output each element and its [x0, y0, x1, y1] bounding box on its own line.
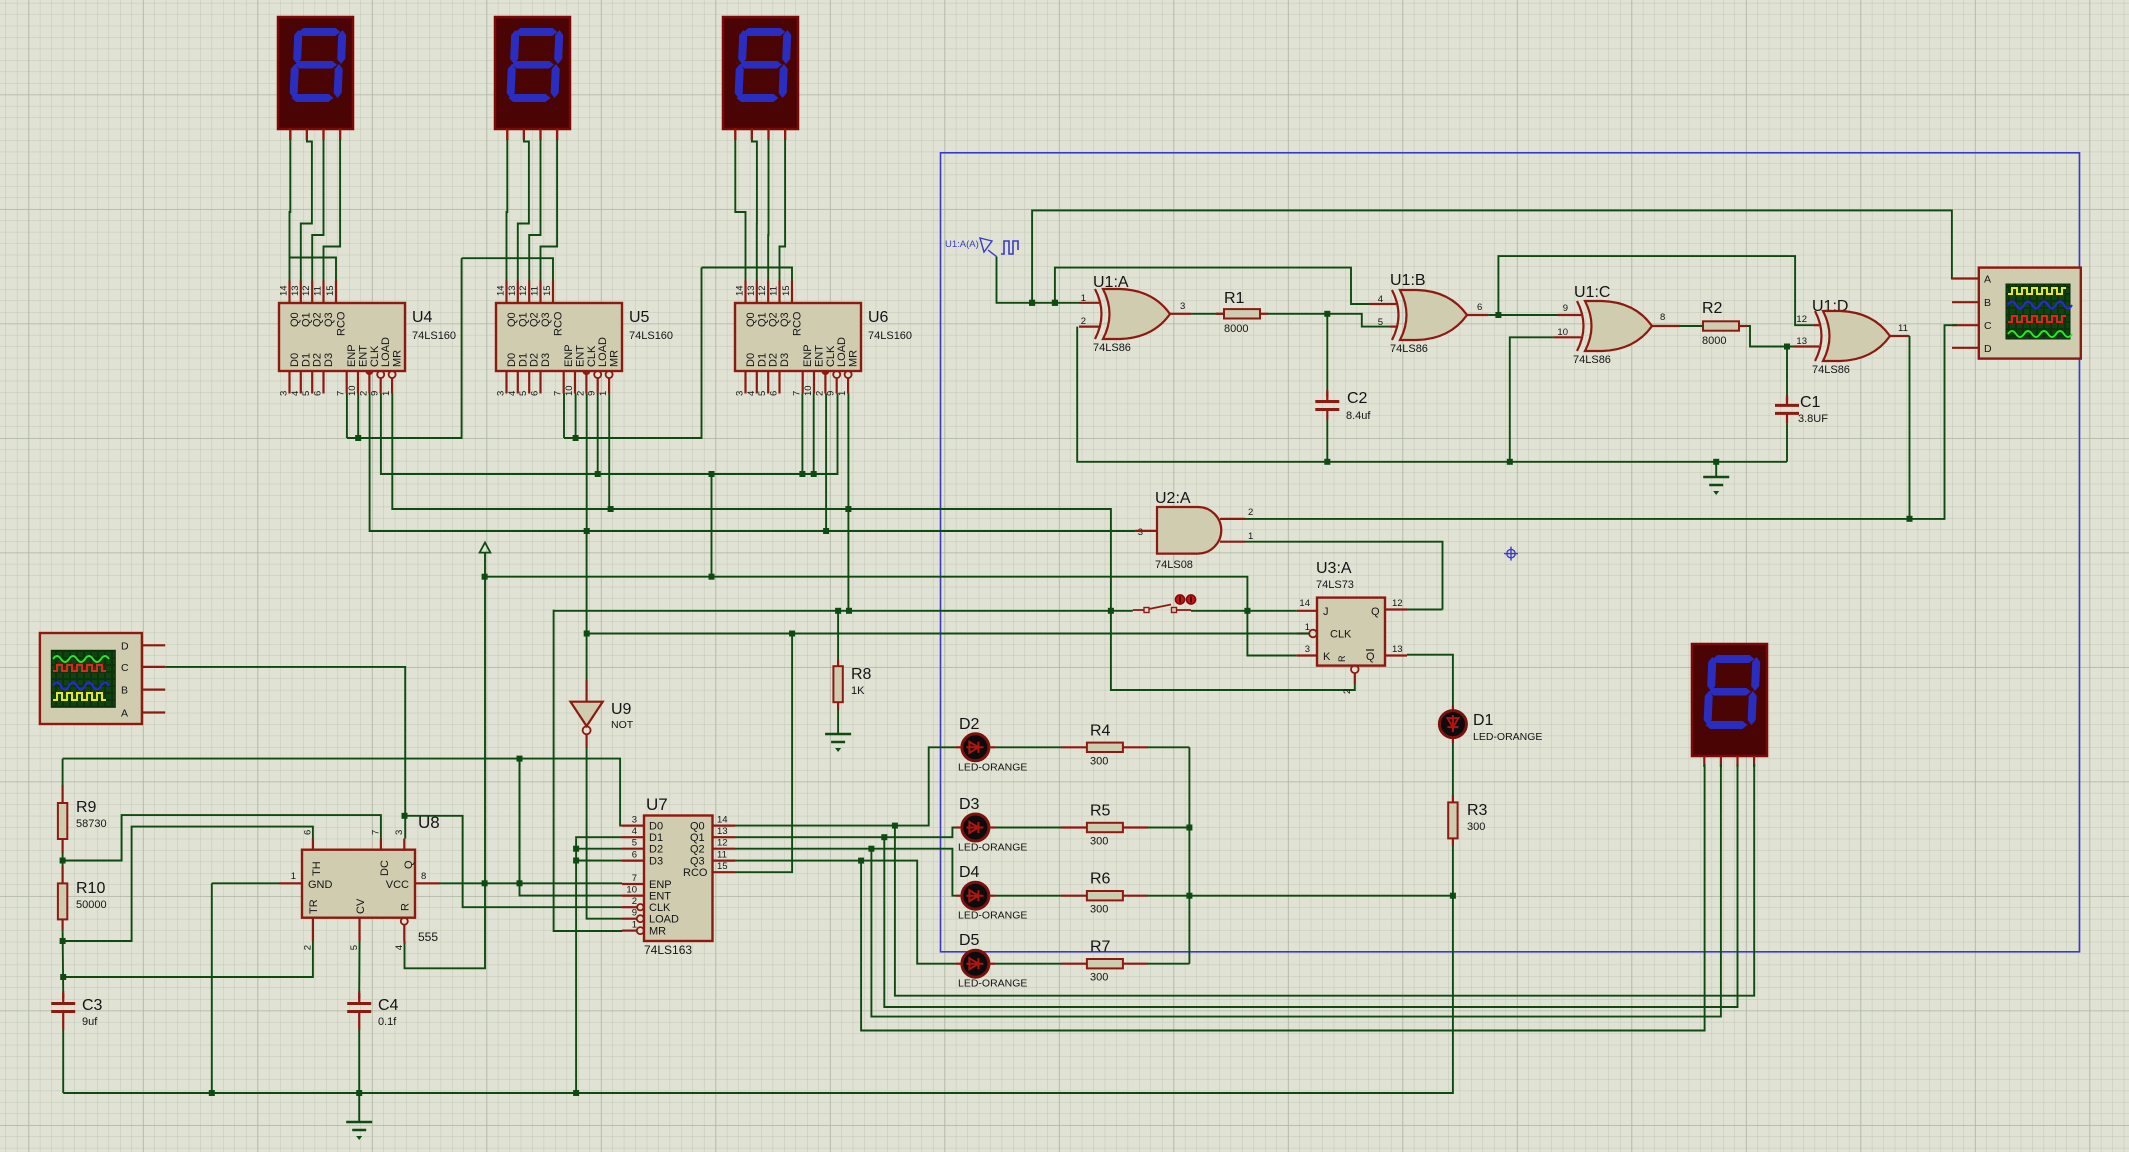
voltage probe U1:A(A) — [945, 238, 1018, 257]
svg-text:LOAD: LOAD — [380, 337, 392, 367]
svg-text:50000: 50000 — [76, 899, 107, 911]
svg-text:MR: MR — [609, 350, 621, 367]
wire GND row down to return rail — [211, 883, 213, 1093]
svg-text:LED-ORANGE: LED-ORANGE — [958, 910, 1027, 922]
svg-text:Q: Q — [1366, 651, 1375, 663]
svg-text:2: 2 — [1081, 316, 1086, 327]
svg-text:4: 4 — [394, 945, 405, 950]
svg-text:10: 10 — [564, 385, 575, 396]
wire U1:D out down to AND row — [1909, 336, 1911, 519]
svg-text:1K: 1K — [851, 685, 865, 697]
oscilloscope display right — [1952, 268, 2081, 359]
wire U7 RCO up to CLK2 row — [735, 634, 792, 873]
svg-text:300: 300 — [1090, 904, 1108, 916]
svg-text:74LS73: 74LS73 — [1316, 579, 1354, 591]
resistor R9 — [61, 786, 63, 804]
wire R10 bottom to C3 — [62, 930, 65, 991]
svg-text:13: 13 — [717, 826, 728, 837]
counter U6 74LS160 — [735, 281, 913, 397]
svg-text:8000: 8000 — [1702, 335, 1726, 347]
svg-text:MR: MR — [392, 350, 404, 367]
led D1 LED-ORANGE — [1439, 711, 1466, 738]
svg-text:300: 300 — [1090, 972, 1108, 984]
svg-text:U7: U7 — [646, 795, 668, 814]
resistor R2 — [1703, 321, 1739, 330]
svg-text:5: 5 — [349, 945, 360, 950]
svg-text:12: 12 — [1392, 598, 1403, 609]
svg-text:R10: R10 — [76, 880, 105, 897]
wire MR bus row to U3:A R pin — [392, 394, 1355, 691]
svg-text:U8: U8 — [418, 813, 440, 832]
svg-text:TR: TR — [308, 899, 320, 914]
svg-text:LOAD: LOAD — [649, 914, 679, 926]
wire VCC junction riser — [519, 759, 521, 884]
wire LOAD bus row — [381, 394, 838, 475]
svg-text:6: 6 — [769, 391, 780, 396]
svg-text:C: C — [121, 662, 129, 674]
svg-text:D3: D3 — [649, 856, 663, 868]
svg-text:58730: 58730 — [76, 818, 107, 830]
svg-text:R1: R1 — [1224, 290, 1245, 307]
wire R2 to U1:D pin13 row — [1739, 325, 1747, 327]
wire Q1 down to rail2 to display pin — [884, 764, 1737, 1007]
svg-text:MR: MR — [649, 926, 666, 938]
svg-text:15: 15 — [542, 285, 553, 296]
svg-text:LOAD: LOAD — [836, 337, 848, 367]
svg-text:DC: DC — [379, 860, 391, 876]
led D4 LED-ORANGE — [962, 882, 989, 909]
svg-text:ENP: ENP — [802, 344, 814, 367]
svg-text:12: 12 — [717, 838, 728, 849]
svg-text:D3: D3 — [323, 353, 335, 367]
svg-text:11: 11 — [769, 286, 780, 296]
svg-text:14: 14 — [717, 815, 728, 826]
svg-text:9uf: 9uf — [82, 1016, 98, 1028]
wire probe to U1:A pin 1 — [997, 257, 1080, 303]
svg-text:LOAD: LOAD — [597, 337, 609, 367]
svg-text:10: 10 — [626, 885, 637, 896]
wire U4 ENP stub — [346, 394, 348, 439]
svg-text:15: 15 — [325, 285, 336, 296]
wire U5 ENP/ENT stubs — [563, 394, 565, 439]
svg-text:13: 13 — [1796, 336, 1807, 347]
svg-text:ENT: ENT — [358, 345, 370, 367]
svg-text:2: 2 — [358, 391, 369, 396]
led D3 LED-ORANGE — [962, 814, 989, 841]
svg-text:6: 6 — [302, 830, 313, 835]
blue border box — [941, 153, 2080, 952]
ground — [1703, 477, 1729, 495]
svg-text:CLK: CLK — [586, 345, 598, 367]
wire C2 to ground rail — [1326, 420, 1328, 462]
wire U6.ENP stub — [801, 394, 803, 475]
svg-text:ENT: ENT — [575, 345, 587, 367]
svg-text:Q: Q — [1371, 606, 1380, 618]
svg-text:11: 11 — [313, 286, 324, 296]
svg-text:D2: D2 — [649, 844, 663, 856]
wire U2:A pin2 to scope C feedback — [1245, 325, 1957, 519]
svg-text:3.8UF: 3.8UF — [1798, 413, 1828, 425]
capacitor C3 — [62, 991, 64, 999]
wire U6.MR to J row — [847, 394, 849, 611]
wire TH pin row — [63, 827, 313, 941]
svg-text:D1: D1 — [517, 353, 529, 367]
svg-text:D1: D1 — [1473, 712, 1494, 729]
wire U6.ENT stub — [813, 394, 815, 475]
wire CLK bus row — [370, 394, 1136, 532]
svg-text:1: 1 — [381, 391, 392, 396]
svg-text:RCO: RCO — [553, 311, 565, 336]
pin stubs U1:A — [1079, 302, 1099, 304]
svg-text:Q0: Q0 — [289, 312, 301, 327]
resistor R10 — [61, 866, 63, 884]
svg-text:D2: D2 — [312, 353, 324, 367]
logic state indicators red circles — [1175, 595, 1184, 604]
wire U9 output to U7 LOAD — [585, 734, 587, 748]
svg-text:Q0: Q0 — [745, 312, 757, 327]
wire U2:A pin1 from U3:A Q — [1245, 542, 1443, 610]
wire R8 to ground — [837, 710, 839, 734]
svg-text:D3: D3 — [779, 353, 791, 367]
wire display to counter bundle — [734, 129, 736, 141]
wire scope-C down to 555 Q pin 3 — [165, 667, 405, 839]
wire R5 to bus — [1148, 827, 1189, 829]
svg-text:D0: D0 — [649, 821, 663, 833]
svg-text:D5: D5 — [959, 932, 980, 949]
svg-text:Q2: Q2 — [690, 844, 705, 856]
wire Q0 down to rail1 to display pin — [895, 764, 1754, 996]
wire D3 to R5 — [995, 827, 1061, 829]
svg-text:3: 3 — [1180, 301, 1185, 312]
svg-text:R4: R4 — [1090, 722, 1111, 739]
svg-text:R2: R2 — [1702, 300, 1723, 317]
svg-text:Q1: Q1 — [690, 832, 705, 844]
svg-text:4: 4 — [746, 391, 757, 396]
pin stubs U1:C — [1558, 314, 1581, 316]
svg-text:ENT: ENT — [649, 891, 671, 903]
svg-text:74LS163: 74LS163 — [644, 943, 692, 957]
wire R6 to bus — [1148, 895, 1189, 897]
svg-text:7: 7 — [553, 391, 564, 396]
svg-text:D1: D1 — [756, 353, 768, 367]
capacitor C4 from CV pin — [358, 941, 360, 991]
svg-text:3: 3 — [394, 830, 405, 835]
svg-text:U3:A: U3:A — [1316, 560, 1352, 577]
svg-text:GND: GND — [308, 879, 333, 891]
svg-text:10: 10 — [347, 385, 358, 396]
svg-text:Q: Q — [403, 860, 415, 869]
wire U3:A Qbar to D1 — [1407, 655, 1453, 706]
svg-text:11: 11 — [1898, 323, 1908, 334]
not gate U9 — [571, 702, 603, 726]
wire U3:A Q to junction — [1407, 609, 1443, 611]
svg-text:74LS86: 74LS86 — [1093, 342, 1131, 354]
resistor R7 — [1087, 959, 1123, 968]
svg-text:74LS86: 74LS86 — [1390, 343, 1428, 355]
origin marker crosshair — [1504, 547, 1518, 561]
svg-text:D: D — [1984, 343, 1992, 355]
svg-text:5: 5 — [632, 838, 637, 849]
wire D2 to R4 — [995, 746, 1061, 748]
wire power terminal down to 555 reset hook — [405, 553, 486, 969]
svg-text:RCO: RCO — [683, 867, 708, 879]
svg-text:ENP: ENP — [346, 344, 358, 367]
wire R3 down to ground return rail — [63, 846, 1453, 1093]
wire TR pin down and left to C3 top — [63, 941, 313, 977]
svg-text:74LS160: 74LS160 — [629, 330, 673, 342]
svg-text:Q3: Q3 — [323, 312, 335, 327]
wire D4 to R6 — [995, 895, 1061, 897]
svg-text:8.4uf: 8.4uf — [1346, 410, 1371, 422]
svg-text:R9: R9 — [76, 799, 97, 816]
svg-text:D2: D2 — [768, 353, 780, 367]
junction dots misc — [1029, 300, 1035, 306]
capacitor C1 — [1775, 395, 1799, 423]
svg-text:CLK: CLK — [825, 345, 837, 367]
svg-text:C2: C2 — [1347, 390, 1368, 407]
wire U6.RCO to U5 ENP/ENT — [564, 268, 702, 439]
svg-text:U9: U9 — [611, 701, 632, 718]
wire display to counter bundle — [289, 129, 291, 141]
svg-text:CV: CV — [355, 898, 367, 914]
svg-text:RCO: RCO — [336, 311, 348, 336]
wire LED bus vertical — [1188, 747, 1190, 963]
svg-text:2: 2 — [632, 896, 637, 907]
wire U9 input from CLK bus — [585, 680, 587, 702]
resistor R8 — [833, 666, 842, 702]
wire U5.MR stub — [608, 394, 610, 510]
svg-text:D2: D2 — [529, 353, 541, 367]
svg-text:LED-ORANGE: LED-ORANGE — [1473, 731, 1542, 743]
svg-text:D2: D2 — [959, 716, 980, 733]
svg-text:D1: D1 — [649, 832, 663, 844]
svg-text:R: R — [400, 903, 412, 911]
svg-text:555: 555 — [418, 930, 438, 944]
wire U1:B out junction to U1:C pin9 — [1488, 314, 1558, 316]
svg-text:C3: C3 — [82, 997, 103, 1014]
svg-text:LED-ORANGE: LED-ORANGE — [958, 842, 1027, 854]
svg-text:10: 10 — [803, 385, 814, 396]
wire Q2 to D4 row — [735, 849, 956, 896]
xor gate U1:A 74LS86 — [1093, 274, 1129, 291]
svg-text:ENP: ENP — [563, 344, 575, 367]
svg-text:2: 2 — [575, 391, 586, 396]
svg-text:NOT: NOT — [611, 719, 634, 731]
wire 555 reset pin 4 hook — [403, 941, 405, 944]
svg-text:3: 3 — [496, 391, 507, 396]
svg-text:13: 13 — [746, 285, 757, 296]
svg-text:CLK: CLK — [1330, 629, 1352, 641]
counter U5 74LS160 — [496, 281, 674, 397]
svg-text:12: 12 — [301, 285, 312, 296]
wire U5.RCO to U4 ENP/ENT — [347, 258, 462, 438]
svg-text:2: 2 — [1248, 507, 1253, 518]
svg-text:VCC: VCC — [386, 879, 409, 891]
svg-text:12: 12 — [518, 285, 529, 296]
svg-text:D: D — [121, 640, 129, 652]
wire R9 top to D0 row — [62, 759, 64, 785]
svg-text:CLK: CLK — [649, 902, 671, 914]
7-segment display top-2 — [495, 17, 570, 140]
wire R7 to bus — [1148, 963, 1189, 965]
wire U1:B out up to U1:D pin12 — [1498, 256, 1814, 325]
svg-text:11: 11 — [717, 850, 727, 861]
svg-text:12: 12 — [757, 285, 768, 296]
wire U1:C out to R2 — [1680, 325, 1703, 327]
capacitor C2 — [1315, 392, 1339, 420]
svg-text:K: K — [1323, 651, 1331, 663]
wire Q0 to D2 row — [735, 747, 956, 825]
svg-text:3: 3 — [735, 391, 746, 396]
svg-text:1: 1 — [837, 391, 848, 396]
svg-text:3: 3 — [279, 391, 290, 396]
svg-text:4: 4 — [290, 391, 301, 396]
power terminal arrow — [480, 543, 491, 553]
wire R6 row to R3 junction — [1189, 895, 1453, 897]
svg-text:5: 5 — [1378, 317, 1383, 328]
svg-text:4: 4 — [632, 826, 637, 837]
svg-text:13: 13 — [290, 285, 301, 296]
resistor R1 — [1224, 309, 1260, 318]
svg-text:74LS86: 74LS86 — [1812, 364, 1850, 376]
svg-text:Q1: Q1 — [517, 312, 529, 327]
svg-text:TH: TH — [311, 861, 323, 876]
svg-text:74LS86: 74LS86 — [1573, 354, 1611, 366]
wire C4 down to rail and ground — [358, 1030, 360, 1122]
svg-text:ENP: ENP — [649, 879, 672, 891]
svg-text:5: 5 — [301, 391, 312, 396]
svg-text:LED-ORANGE: LED-ORANGE — [958, 978, 1027, 990]
svg-text:A: A — [1984, 274, 1991, 286]
svg-text:C: C — [1984, 320, 1992, 332]
svg-text:6: 6 — [1477, 302, 1482, 313]
svg-text:U6: U6 — [868, 309, 889, 326]
svg-text:2: 2 — [1342, 689, 1353, 694]
svg-text:1: 1 — [291, 871, 296, 882]
svg-text:U1:C: U1:C — [1574, 284, 1610, 301]
svg-text:300: 300 — [1467, 821, 1485, 833]
svg-text:ENT: ENT — [814, 345, 826, 367]
resistor R4 — [1087, 743, 1123, 752]
wire ENT jog — [520, 759, 623, 896]
svg-text:74LS08: 74LS08 — [1155, 559, 1193, 571]
svg-text:9: 9 — [632, 908, 637, 919]
wire U6.CLK stub — [825, 394, 827, 532]
svg-text:U1:A(A): U1:A(A) — [945, 239, 979, 250]
ground C4 — [346, 1122, 372, 1140]
svg-text:6: 6 — [313, 391, 324, 396]
svg-text:Q3: Q3 — [690, 856, 705, 868]
svg-text:D0: D0 — [745, 353, 757, 367]
svg-text:7: 7 — [632, 873, 637, 884]
logic state switch — [1133, 605, 1191, 613]
7-segment display bottom-right — [1692, 644, 1767, 767]
wire Q3 down to rail4 to display pin — [861, 764, 1705, 1031]
wire junction down to C1 — [1786, 347, 1788, 398]
svg-text:14: 14 — [496, 285, 507, 296]
svg-text:14: 14 — [1299, 598, 1310, 609]
svg-text:R6: R6 — [1090, 871, 1111, 888]
svg-text:U2:A: U2:A — [1155, 490, 1191, 507]
svg-text:0.1f: 0.1f — [378, 1016, 397, 1028]
wire display to counter bundle — [506, 129, 508, 141]
pin stubs U1:B — [1370, 303, 1397, 305]
svg-text:9: 9 — [826, 391, 837, 396]
svg-text:CLK: CLK — [369, 345, 381, 367]
svg-text:U5: U5 — [629, 309, 650, 326]
wire U1:A pin1 to U1:B pin4 — [1055, 268, 1370, 304]
svg-text:Q1: Q1 — [756, 312, 768, 327]
pin stubs U1:D — [1814, 324, 1819, 326]
svg-text:MR: MR — [848, 350, 860, 367]
ground rail junctions — [1713, 459, 1719, 465]
svg-text:15: 15 — [781, 285, 792, 296]
svg-text:11: 11 — [530, 286, 541, 296]
J row wire with switch — [554, 610, 622, 931]
svg-text:3: 3 — [1305, 644, 1310, 655]
svg-text:Q0: Q0 — [506, 312, 518, 327]
svg-text:8: 8 — [1660, 312, 1665, 323]
svg-text:9: 9 — [587, 391, 598, 396]
wire U5.CLK stub — [586, 394, 588, 532]
svg-text:R7: R7 — [1090, 939, 1111, 956]
wire GND pin row — [212, 882, 279, 884]
svg-text:2: 2 — [302, 945, 313, 950]
svg-text:B: B — [1984, 297, 1991, 309]
resistor R6 — [1087, 891, 1123, 900]
svg-text:5: 5 — [518, 391, 529, 396]
wire DC pin row — [63, 815, 381, 860]
7-segment display top-3 — [723, 17, 798, 140]
resistor R3 — [1448, 802, 1457, 838]
wire C1 to ground rail — [1786, 423, 1788, 461]
svg-text:13: 13 — [1392, 644, 1403, 655]
wire U1:A out to R1 — [1191, 313, 1224, 315]
svg-text:Q2: Q2 — [768, 312, 780, 327]
counter U4 74LS160 — [279, 281, 457, 397]
svg-text:7: 7 — [370, 830, 381, 835]
svg-text:C1: C1 — [1800, 394, 1821, 411]
wire D1 to R3 — [1452, 743, 1454, 795]
svg-text:8: 8 — [421, 871, 426, 882]
svg-text:6: 6 — [632, 850, 637, 861]
wire 555 Q to U7 CLK — [405, 816, 623, 907]
wire C3 to return rail — [62, 1030, 64, 1093]
pin stubs U2:A — [1135, 530, 1157, 532]
svg-text:300: 300 — [1090, 755, 1108, 767]
svg-text:D3: D3 — [959, 796, 980, 813]
wire R4 to bus — [1148, 746, 1189, 748]
svg-text:LED-ORANGE: LED-ORANGE — [958, 761, 1027, 773]
svg-text:R8: R8 — [851, 666, 872, 683]
wire D0 feed row — [63, 759, 622, 826]
svg-text:R3: R3 — [1467, 802, 1488, 819]
svg-text:3: 3 — [1138, 527, 1143, 538]
oscilloscope display left — [40, 633, 165, 724]
wire CLK row to U3:A — [587, 633, 1309, 635]
svg-text:D0: D0 — [506, 353, 518, 367]
svg-text:4: 4 — [507, 391, 518, 396]
wire D5 to R7 — [995, 963, 1061, 965]
svg-text:R: R — [1337, 655, 1347, 662]
svg-text:13: 13 — [507, 285, 518, 296]
svg-text:Q2: Q2 — [529, 312, 541, 327]
svg-text:R5: R5 — [1090, 803, 1111, 820]
led D2 LED-ORANGE — [962, 734, 989, 761]
svg-text:Q0: Q0 — [690, 821, 705, 833]
svg-text:D4: D4 — [959, 864, 980, 881]
wire VCC/ENP row — [440, 882, 623, 884]
